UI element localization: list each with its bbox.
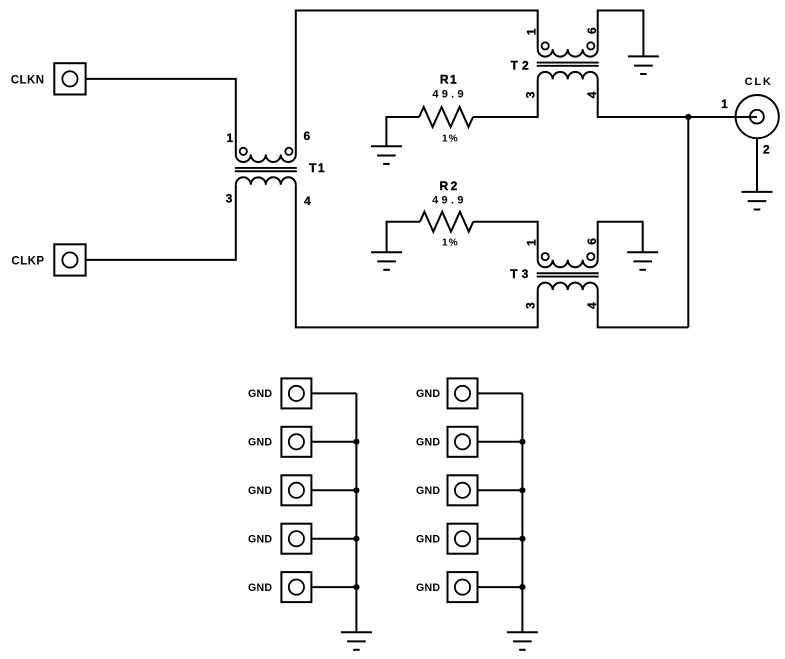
svg-text:R2: R2 (440, 179, 460, 193)
svg-text:GND: GND (248, 437, 272, 449)
junction at CLK net (685, 114, 691, 120)
wire T3 pin 6 to ground (598, 222, 643, 260)
svg-text:T3: T3 (510, 267, 532, 281)
svg-text:GND: GND (248, 582, 272, 594)
wire GND-R2 to rail (478, 441, 523, 443)
svg-text:GND: GND (416, 534, 440, 546)
connector GND-L2 (281, 427, 311, 457)
svg-text:1: 1 (721, 97, 728, 111)
connector CLK (736, 95, 779, 138)
svg-text:GND: GND (248, 485, 272, 497)
connector GND-L3 (281, 475, 311, 505)
connector GND-R2 (448, 427, 478, 457)
junction GND rail R4 (519, 536, 525, 542)
svg-text:3: 3 (523, 91, 537, 98)
ground T3-pin6 (627, 252, 658, 270)
wire T1 pin 6 to T2 pin 1 (296, 11, 538, 155)
junction GND rail L3 (353, 487, 359, 493)
junction GND rail R2 (519, 439, 525, 445)
wire CLK pin 2 to ground (756, 139, 758, 192)
wire R2 to ground stub (387, 222, 420, 253)
svg-text:3: 3 (523, 302, 537, 309)
resistor R1 (419, 107, 473, 127)
svg-text:4: 4 (304, 194, 311, 208)
wire T2 pin 3 to R1 (473, 79, 538, 117)
wire bottom rail T1 pin 4 to T3 pin 3 (296, 185, 538, 328)
junction GND rail L5 (353, 584, 359, 590)
wire CLKN to T1 pin 1 (86, 79, 236, 155)
svg-text:1: 1 (227, 131, 234, 145)
svg-text:3: 3 (226, 191, 233, 205)
wire R1 to ground stub (386, 117, 419, 146)
transformer T3 (537, 253, 599, 290)
wire GND-L3 to rail (311, 489, 356, 491)
connector CLKN (54, 63, 85, 94)
svg-text:T2: T2 (511, 59, 533, 73)
wire GND-L2 to rail (311, 441, 356, 443)
ground T2-pin6 (628, 56, 659, 74)
svg-text:49.9: 49.9 (432, 195, 467, 207)
junction GND rail R5 (519, 584, 525, 590)
wire GND-R3 to rail (478, 489, 523, 491)
wire GND-R1 to rail (478, 392, 523, 394)
svg-text:6: 6 (303, 129, 310, 143)
connector GND-L1 (281, 378, 311, 408)
svg-text:GND: GND (248, 388, 272, 400)
ground rail-R (507, 632, 538, 650)
wire T3 pin 4 to junction rail (598, 290, 689, 327)
svg-text:1%: 1% (442, 237, 459, 248)
connector GND-R1 (448, 378, 478, 408)
wire T2 pin 4 to CLK pin 1 (598, 79, 757, 117)
connector GND-L4 (281, 524, 311, 554)
svg-text:2: 2 (763, 143, 770, 157)
wire GND rail L (355, 393, 357, 632)
svg-text:GND: GND (416, 437, 440, 449)
svg-text:GND: GND (416, 388, 440, 400)
ground R2 (371, 252, 402, 270)
transformer T2 (537, 42, 599, 79)
junction GND rail L4 (353, 536, 359, 542)
svg-text:GND: GND (416, 582, 440, 594)
svg-text:R1: R1 (440, 72, 458, 86)
wire GND-L1 to rail (311, 392, 356, 394)
ground R1 (371, 146, 402, 164)
junction GND rail L2 (353, 439, 359, 445)
wire GND-L4 to rail (311, 538, 356, 540)
connector GND-R4 (448, 524, 478, 554)
svg-text:49.9: 49.9 (432, 89, 467, 101)
svg-text:1%: 1% (442, 134, 459, 145)
connector GND-R3 (448, 475, 478, 505)
connector GND-L5 (281, 572, 311, 602)
svg-text:1: 1 (524, 28, 538, 35)
svg-text:GND: GND (416, 485, 440, 497)
wire GND-R5 to rail (478, 586, 523, 588)
wire GND rail R (521, 393, 523, 632)
resistor R2 (420, 212, 473, 232)
svg-text:CLK: CLK (745, 76, 773, 88)
wire GND-R4 to rail (478, 538, 523, 540)
svg-text:GND: GND (248, 534, 272, 546)
svg-text:1: 1 (524, 239, 538, 246)
svg-text:CLKN: CLKN (11, 75, 45, 87)
svg-text:T1: T1 (309, 161, 326, 175)
wire R2 to T3 pin 1 (473, 222, 538, 260)
wire GND-L5 to rail (311, 586, 356, 588)
ground CLK-pin2 (742, 192, 773, 210)
ground rail-L (341, 632, 372, 650)
connector GND-R5 (448, 572, 478, 602)
wire CLKP to T1 pin 3 (86, 185, 236, 260)
connector CLKP (54, 244, 85, 275)
wire junction down to bottom rail (687, 117, 689, 327)
wire T2 pin 6 to ground (598, 11, 644, 57)
transformer T1 (235, 148, 297, 185)
svg-text:CLKP: CLKP (11, 256, 44, 268)
junction GND rail R3 (519, 487, 525, 493)
